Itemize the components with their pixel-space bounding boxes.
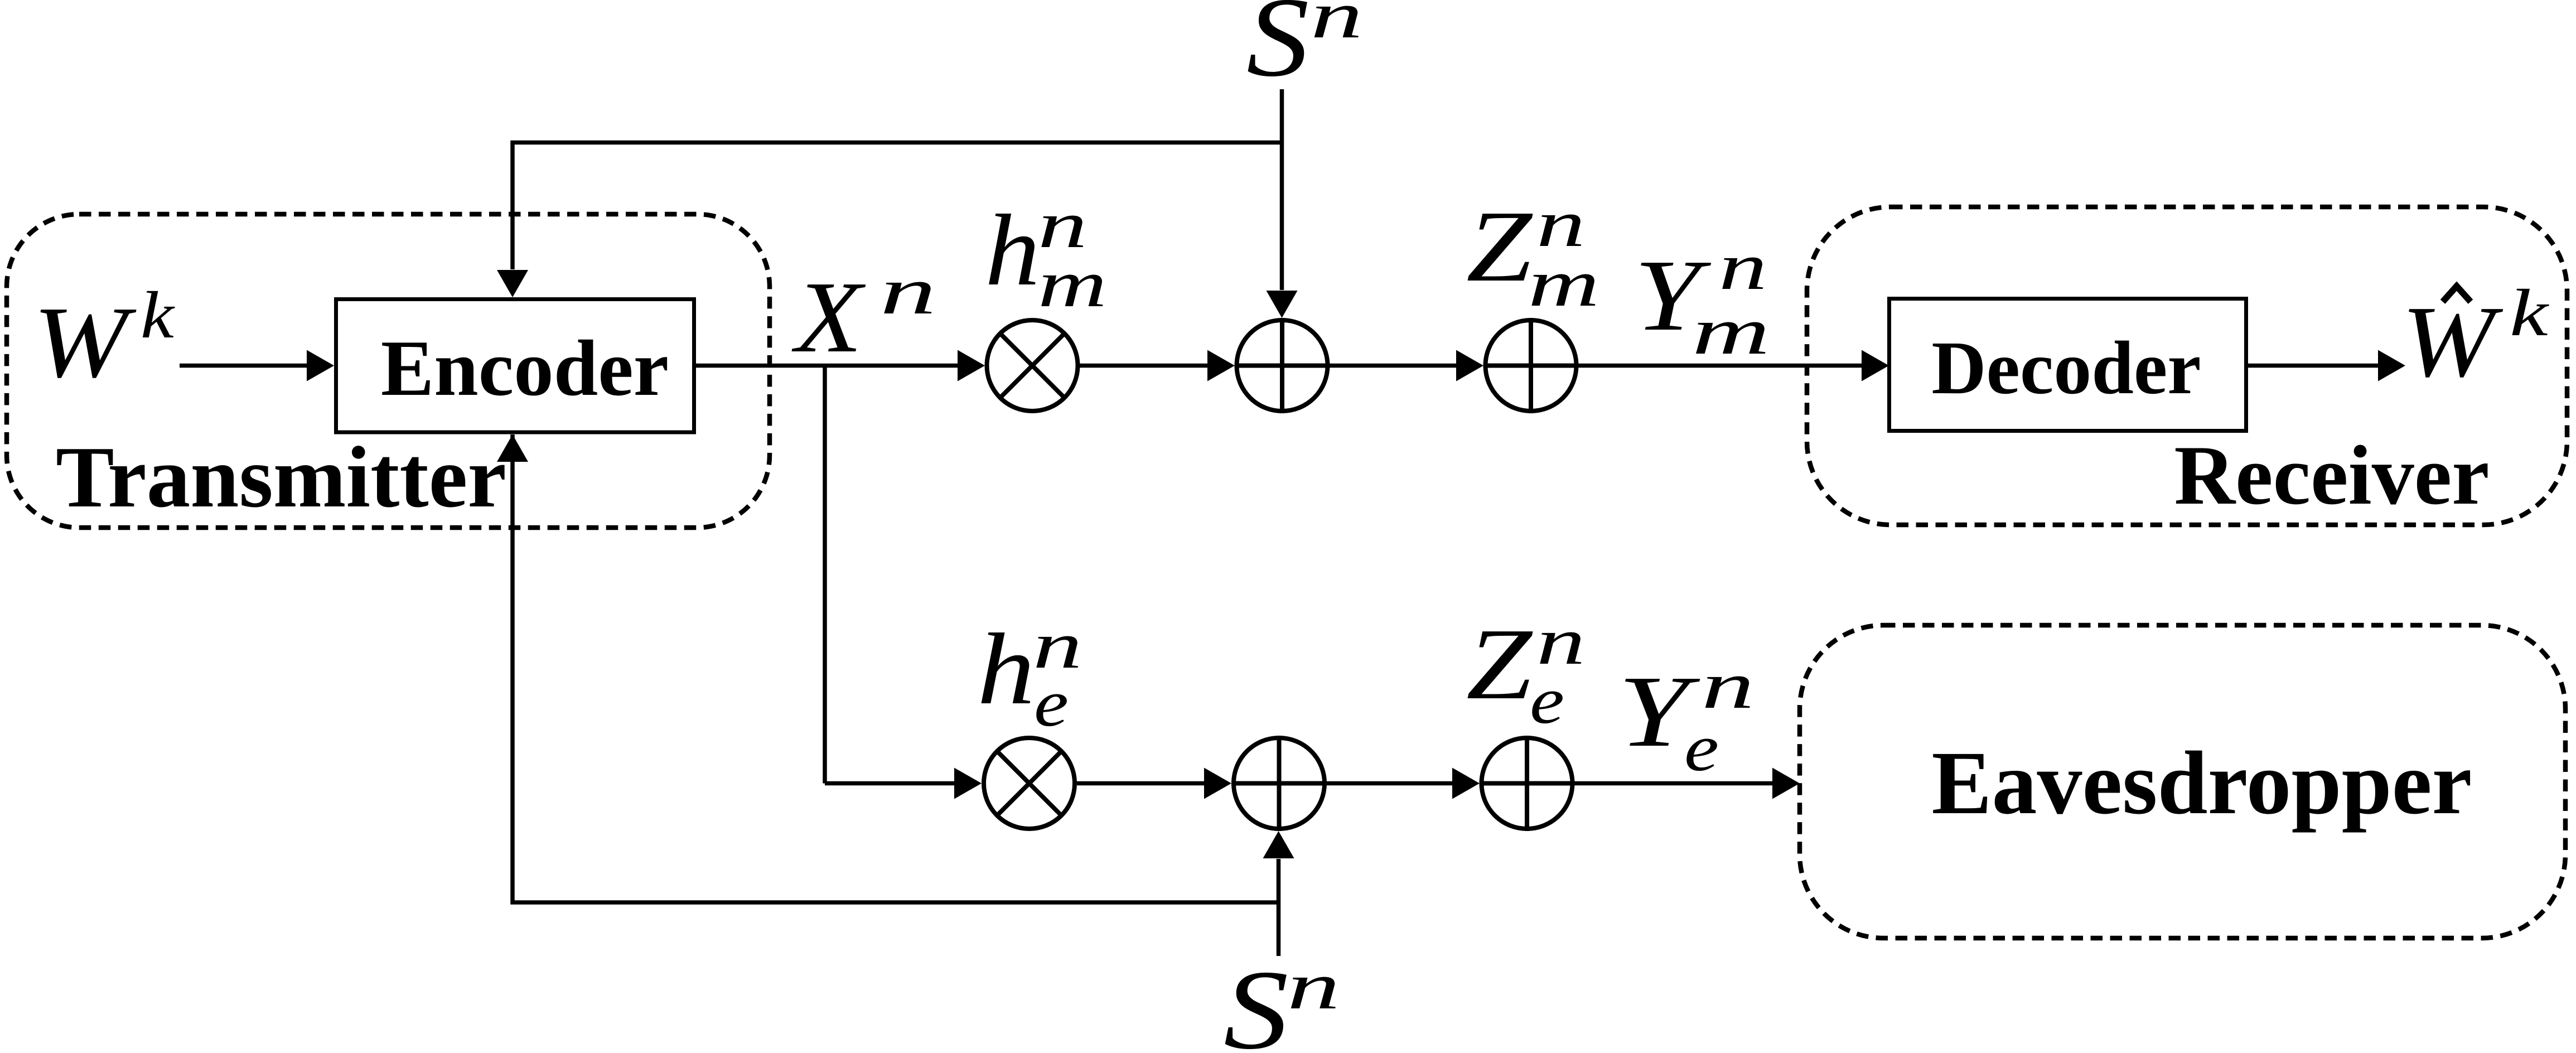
wire W input — [180, 364, 308, 368]
adder Zm plus — [1529, 318, 1533, 413]
adder Ze circle — [1482, 738, 1573, 829]
svg-text:h: h — [977, 612, 1035, 726]
svg-text:Z: Z — [1466, 190, 1533, 303]
multiplier he circle — [984, 738, 1075, 829]
adder Ze plus — [1525, 736, 1529, 831]
svg-text:n: n — [880, 254, 936, 328]
svg-text:W: W — [33, 286, 137, 399]
svg-text:S: S — [1224, 947, 1289, 1053]
adder Se circle — [1234, 738, 1325, 829]
adder Se plus — [1277, 736, 1282, 831]
arrowhead into encoder — [307, 350, 334, 381]
multiplier he cross — [997, 751, 1061, 815]
svg-text:X: X — [791, 260, 866, 374]
wire S bottom vertical — [1277, 859, 1281, 956]
arrowhead W hat — [2378, 350, 2405, 381]
wire S feedback bottom horizontal — [511, 900, 1279, 905]
svg-text:h: h — [985, 194, 1040, 307]
svg-text:W: W — [2401, 285, 2503, 398]
svg-text:m: m — [1038, 247, 1107, 321]
svg-text:k: k — [2510, 276, 2550, 350]
encoder box U1 — [336, 300, 694, 433]
svg-text:n: n — [1719, 229, 1767, 303]
svg-text:Encoder: Encoder — [381, 324, 669, 412]
svg-text:e: e — [1684, 711, 1719, 785]
adder Sm circle — [1237, 320, 1328, 411]
arrowhead S into adder Se — [1263, 831, 1294, 858]
wire adder Se to adder Ze — [1327, 781, 1453, 786]
arrowhead into adder Zm — [1456, 350, 1483, 381]
label What hat accent — [2443, 286, 2471, 302]
wire adder Ze to eavesdropper — [1574, 781, 1773, 786]
decoder box U2 — [1889, 299, 2246, 431]
svg-text:n: n — [1311, 0, 1363, 52]
arrowhead into adder Ze — [1452, 768, 1480, 799]
arrowhead into adder S — [1207, 350, 1235, 381]
svg-text:e: e — [1034, 666, 1069, 740]
wire decoder output — [2248, 364, 2379, 368]
svg-text:m: m — [1528, 246, 1599, 320]
svg-text:Z: Z — [1466, 607, 1533, 721]
eavesdropper dashed box — [1800, 625, 2565, 938]
svg-text:S: S — [1246, 0, 1309, 100]
transmitter dashed box — [7, 214, 770, 528]
wire S feedback top vertical — [510, 141, 515, 269]
multiplier hm circle — [987, 320, 1078, 411]
multiplier hm cross — [1000, 334, 1064, 398]
svg-text:Receiver: Receiver — [2174, 428, 2489, 522]
svg-text:m: m — [1692, 294, 1770, 368]
svg-text:Transmitter: Transmitter — [56, 428, 506, 525]
wire adder Sm to adder Zm — [1330, 364, 1457, 368]
arrowhead into multiplier he — [954, 768, 982, 799]
svg-text:n: n — [1287, 949, 1340, 1023]
arrowhead S into encoder bottom — [497, 434, 528, 462]
wire multiplier hm to adder S — [1080, 364, 1208, 368]
svg-text:Decoder: Decoder — [1931, 326, 2201, 410]
svg-text:k: k — [141, 278, 176, 352]
arrowhead into adder Se — [1204, 768, 1231, 799]
svg-text:Eavesdropper: Eavesdropper — [1931, 733, 2472, 833]
arrowhead S into adder Sm — [1267, 291, 1298, 318]
adder Sm plus — [1280, 318, 1284, 413]
svg-text:e: e — [1530, 663, 1564, 737]
wire S feedback top horizontal — [511, 141, 1282, 145]
wire multiplier he to adder Se — [1077, 781, 1205, 786]
node X branch — [823, 366, 827, 784]
receiver dashed box — [1807, 207, 2567, 525]
arrowhead into multiplier hm — [958, 350, 985, 381]
wire adder Zm to decoder — [1578, 364, 1863, 368]
wire X branch to multiplier he — [825, 781, 955, 786]
wire S top vertical — [1280, 89, 1284, 290]
adder Zm circle — [1486, 320, 1577, 411]
arrowhead into eavesdropper — [1772, 768, 1800, 799]
arrowhead into decoder — [1862, 350, 1889, 381]
wire S feedback bottom vertical from encoder — [510, 434, 515, 905]
arrowhead S into encoder top — [497, 270, 528, 297]
wire encoder output to multiplier hm — [696, 364, 958, 368]
